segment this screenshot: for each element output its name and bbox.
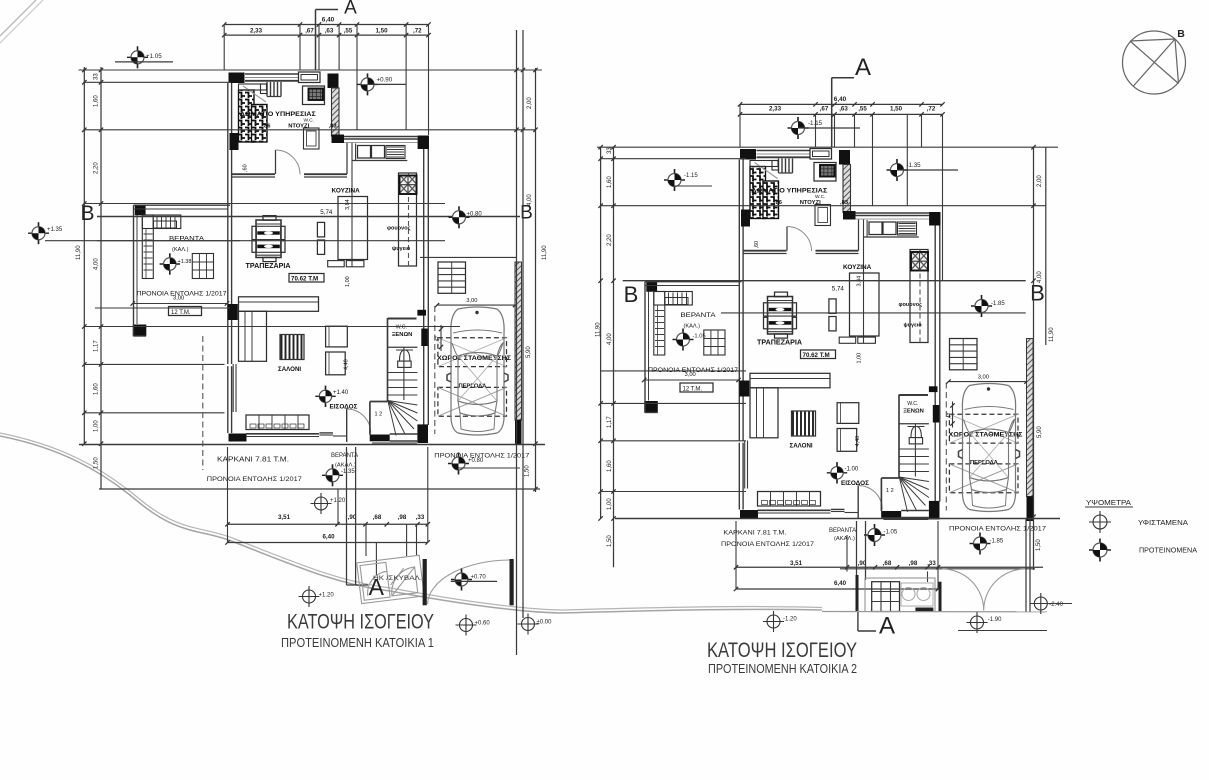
svg-text:,68: ,68	[883, 560, 892, 567]
svg-text:1,50: 1,50	[890, 106, 903, 113]
svg-text:+0.80: +0.80	[468, 458, 484, 464]
svg-text:6,40: 6,40	[322, 533, 335, 540]
svg-text:-1.20: -1.20	[783, 617, 797, 623]
svg-text:ΚΑΤΟΨΗ ΙΣΟΓΕΙΟΥ: ΚΑΤΟΨΗ ΙΣΟΓΕΙΟΥ	[287, 610, 434, 634]
svg-text:5,90: 5,90	[1037, 426, 1043, 438]
svg-text:-1.85: -1.85	[990, 539, 1004, 545]
svg-text:,68: ,68	[373, 514, 382, 521]
svg-text:1,60: 1,60	[607, 460, 613, 472]
svg-text:-1.05: -1.05	[884, 530, 898, 536]
svg-text:1,50: 1,50	[375, 28, 388, 35]
svg-text:,55: ,55	[858, 106, 867, 113]
svg-text:2,33: 2,33	[769, 106, 782, 113]
svg-text:1,50: 1,50	[1036, 539, 1042, 551]
svg-text:ΒΕΡΑΝΤΑ: ΒΕΡΑΝΤΑ	[331, 453, 358, 459]
svg-text:+0.60: +0.60	[475, 621, 491, 627]
svg-text:+0.80: +0.80	[467, 212, 483, 218]
svg-text:-1.35: -1.35	[341, 469, 355, 475]
svg-text:ΠΡΟΤΕΙΝΟΜΕΝΗ ΚΑΤΟΙΚΙΑ 1: ΠΡΟΤΕΙΝΟΜΕΝΗ ΚΑΤΟΙΚΙΑ 1	[281, 636, 434, 650]
svg-text:-1.90: -1.90	[988, 617, 1002, 623]
svg-text:,72: ,72	[927, 106, 936, 113]
svg-text:3,51: 3,51	[790, 560, 803, 567]
svg-text:1,00: 1,00	[607, 498, 613, 510]
svg-text:ΠΡΟΝΟΙΑ ΕΝΤΟΛΗΣ 1/2017: ΠΡΟΝΟΙΑ ΕΝΤΟΛΗΣ 1/2017	[721, 541, 814, 548]
svg-text:±0.00: ±0.00	[537, 620, 553, 626]
svg-text:4,00: 4,00	[607, 333, 613, 345]
svg-text:B: B	[624, 282, 639, 307]
svg-text:A: A	[855, 54, 871, 81]
svg-text:ΠΡΟΝΟΙΑ ΕΝΤΟΛΗΣ 1/2017: ΠΡΟΝΟΙΑ ΕΝΤΟΛΗΣ 1/2017	[207, 476, 302, 483]
svg-text:+1.35: +1.35	[47, 227, 63, 233]
svg-text:1,60: 1,60	[94, 95, 100, 107]
svg-text:A: A	[369, 574, 385, 600]
svg-text:ΥΦΙΣΤΑΜΕΝΑ: ΥΦΙΣΤΑΜΕΝΑ	[1138, 518, 1188, 527]
svg-text:4,00: 4,00	[94, 258, 100, 270]
svg-text:ΚΑΡΚΑΝΙ 7.81 Τ.Μ.: ΚΑΡΚΑΝΙ 7.81 Τ.Μ.	[723, 530, 786, 537]
svg-text:,67: ,67	[305, 28, 314, 35]
svg-text:+1.05: +1.05	[146, 53, 162, 60]
svg-text:6,40: 6,40	[834, 580, 847, 587]
svg-text:,55: ,55	[344, 28, 353, 35]
svg-text:B: B	[1177, 28, 1185, 40]
svg-text:2,00: 2,00	[527, 97, 533, 109]
svg-text:1,17: 1,17	[607, 416, 613, 428]
svg-text:6,40: 6,40	[322, 17, 335, 24]
svg-text:B: B	[80, 202, 94, 225]
svg-text:+0.90: +0.90	[377, 77, 393, 84]
svg-text:ΠΡΟΤΕΙΝΟΜΕΝΑ: ΠΡΟΤΕΙΝΟΜΕΝΑ	[1139, 546, 1197, 555]
svg-text:2,20: 2,20	[94, 162, 100, 174]
svg-text:-1.85: -1.85	[991, 301, 1005, 307]
svg-text:11,90: 11,90	[596, 322, 602, 337]
svg-text:A: A	[344, 0, 357, 19]
svg-text:1,50: 1,50	[607, 535, 613, 547]
svg-text:,67: ,67	[820, 106, 829, 113]
svg-text:1,00: 1,00	[94, 420, 100, 432]
svg-text:ΚΑΤΟΨΗ ΙΣΟΓΕΙΟΥ: ΚΑΤΟΨΗ ΙΣΟΓΕΙΟΥ	[707, 638, 857, 662]
svg-text:2,20: 2,20	[607, 234, 613, 246]
svg-text:1,60: 1,60	[94, 383, 100, 395]
svg-text:,33: ,33	[416, 514, 425, 521]
svg-text:1,17: 1,17	[94, 340, 100, 352]
svg-text:,63: ,63	[325, 28, 334, 35]
svg-text:,72: ,72	[413, 28, 422, 35]
svg-text:-2.40: -2.40	[1049, 602, 1063, 608]
svg-text:-1.05: -1.05	[693, 334, 706, 340]
svg-text:-1.00: -1.00	[845, 467, 859, 473]
svg-text:+0.70: +0.70	[471, 575, 487, 581]
svg-text:,98: ,98	[909, 560, 918, 567]
svg-text:33: 33	[607, 147, 613, 154]
svg-text:1,50: 1,50	[525, 465, 531, 477]
svg-text:4,00: 4,00	[527, 194, 533, 206]
svg-text:ΥΨΟΜΕΤΡΑ: ΥΨΟΜΕΤΡΑ	[1086, 498, 1131, 507]
svg-text:1,60: 1,60	[607, 176, 613, 188]
svg-text:3,51: 3,51	[278, 514, 291, 521]
svg-text:-1.35: -1.35	[907, 162, 922, 169]
svg-text:+1.40: +1.40	[333, 390, 349, 396]
svg-text:+1.38: +1.38	[178, 259, 192, 265]
svg-text:,63: ,63	[839, 106, 848, 113]
svg-text:4,00: 4,00	[1037, 271, 1043, 283]
svg-text:5,90: 5,90	[526, 346, 532, 358]
svg-text:11,90: 11,90	[542, 245, 548, 260]
svg-text:2,00: 2,00	[1037, 175, 1043, 187]
svg-text:,98: ,98	[398, 514, 407, 521]
svg-text:(ΑΚΑΛ.): (ΑΚΑΛ.)	[834, 536, 855, 542]
svg-text:6,40: 6,40	[834, 96, 847, 103]
svg-text:2,33: 2,33	[250, 28, 263, 35]
svg-text:+1.20: +1.20	[319, 593, 335, 599]
svg-text:-1.15: -1.15	[684, 173, 698, 179]
svg-text:A: A	[879, 613, 895, 640]
svg-text:11,90: 11,90	[76, 245, 82, 260]
svg-text:ΒΕΡΑΝΤΑ: ΒΕΡΑΝΤΑ	[829, 528, 856, 534]
svg-text:33: 33	[94, 73, 100, 80]
svg-text:ΠΡΟΝΟΙΑ ΕΝΤΟΛΗΣ 1/2017: ΠΡΟΝΟΙΑ ΕΝΤΟΛΗΣ 1/2017	[949, 526, 1046, 533]
svg-text:-1.15: -1.15	[808, 120, 823, 127]
svg-text:B: B	[1030, 281, 1045, 306]
svg-text:ΠΡΟΤΕΙΝΟΜΕΝΗ ΚΑΤΟΙΚΙΑ 2: ΠΡΟΤΕΙΝΟΜΕΝΗ ΚΑΤΟΙΚΙΑ 2	[708, 662, 857, 676]
svg-text:(ΑΚΑΛ.): (ΑΚΑΛ.)	[335, 463, 356, 469]
svg-text:1,50: 1,50	[94, 457, 100, 469]
svg-text:11,90: 11,90	[1049, 327, 1055, 342]
